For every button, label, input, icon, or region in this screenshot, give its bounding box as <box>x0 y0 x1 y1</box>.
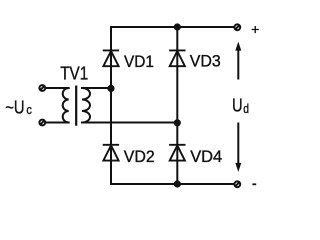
wire top rail <box>111 26 234 28</box>
transformer TV1 primary winding <box>63 88 69 123</box>
arrow Ud down <box>235 123 241 172</box>
svg-text:d: d <box>243 101 249 116</box>
svg-text:c: c <box>26 103 32 117</box>
node junction secondary top / left branch <box>107 85 114 92</box>
diode VD2 <box>103 145 119 161</box>
label minus <box>252 183 256 185</box>
wire primary top lead <box>45 87 68 89</box>
svg-text:~U: ~U <box>5 97 24 118</box>
svg-text:VD1: VD1 <box>124 52 154 71</box>
transformer TV1 secondary winding <box>82 88 90 123</box>
svg-text:TV1: TV1 <box>60 63 88 83</box>
arrow Ud up <box>235 42 241 80</box>
terminal output plus <box>234 24 240 30</box>
svg-text:+: + <box>251 21 259 37</box>
node junction middle wire / right branch <box>174 119 181 126</box>
node junction bottom rail / VD4 <box>174 180 181 187</box>
diode VD4 <box>169 145 185 161</box>
diode VD1 <box>103 50 119 66</box>
svg-text:VD4: VD4 <box>190 147 222 166</box>
terminal primary bottom <box>39 120 45 126</box>
svg-text:U: U <box>232 95 243 116</box>
wire bottom rail <box>111 183 234 185</box>
terminal output minus <box>234 181 240 187</box>
wire secondary top lead <box>82 87 111 89</box>
wire primary bottom lead <box>45 122 68 124</box>
svg-text:VD3: VD3 <box>190 51 221 70</box>
svg-text:VD2: VD2 <box>124 147 155 166</box>
terminal primary top <box>39 85 45 91</box>
transformer TV1 core <box>75 86 77 126</box>
wire right branch <box>176 27 178 184</box>
diode VD3 <box>169 50 185 66</box>
node junction top rail / VD3 <box>174 23 181 30</box>
wire left branch <box>110 27 112 184</box>
wire middle (secondary bottom to VD3/VD4 junction) <box>82 122 177 124</box>
